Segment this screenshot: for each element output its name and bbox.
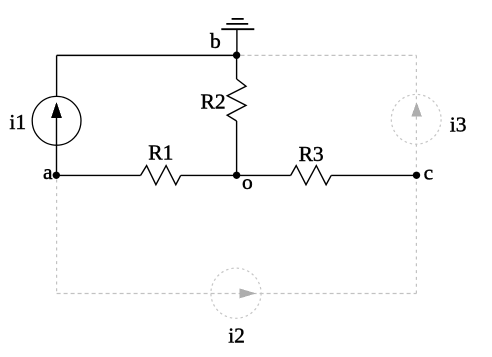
svg-text:b: b [210, 29, 221, 53]
resistor R2 [227, 79, 246, 121]
mesh current i2 indicator [211, 268, 261, 318]
svg-text:c: c [424, 161, 434, 185]
mesh current i3 indicator [391, 94, 441, 144]
resistor R1 [141, 166, 181, 185]
svg-text:R3: R3 [299, 142, 324, 166]
svg-text:a: a [43, 160, 53, 184]
node o [233, 172, 240, 179]
wire: R3 to node c [331, 174, 416, 176]
wire (i2 loop, left vertical, dashed) [56, 180, 58, 294]
node a [53, 172, 60, 179]
wire: a to R1 [56, 174, 140, 176]
wire (i2 loop, bottom horizontal, dashed) [57, 293, 417, 295]
wire: node o to R3 [237, 174, 291, 176]
node b [233, 52, 240, 59]
wire: node b to R2 [236, 55, 238, 79]
current source i1 [32, 96, 81, 145]
wire (i3 loop, right vertical, dashed) [415, 55, 417, 171]
svg-text:i2: i2 [228, 324, 245, 348]
wire: i1 to node a [56, 145, 58, 175]
wire: R2 to node o [236, 121, 238, 175]
wire (i3 loop, top horizontal, dashed) [241, 54, 417, 56]
wire: R1 to node o [181, 174, 237, 176]
wire: top wire down to i1 circle [56, 55, 58, 96]
node c [413, 172, 420, 179]
wire (i2 loop, right vertical, dashed) [415, 180, 417, 294]
ground [221, 19, 254, 56]
wire top: i1 to node b [57, 54, 237, 56]
svg-text:R2: R2 [201, 90, 226, 114]
svg-text:o: o [242, 170, 253, 194]
resistor R3 [291, 166, 332, 185]
svg-text:i1: i1 [9, 110, 26, 134]
svg-text:R1: R1 [148, 141, 173, 165]
svg-text:i3: i3 [450, 112, 467, 136]
